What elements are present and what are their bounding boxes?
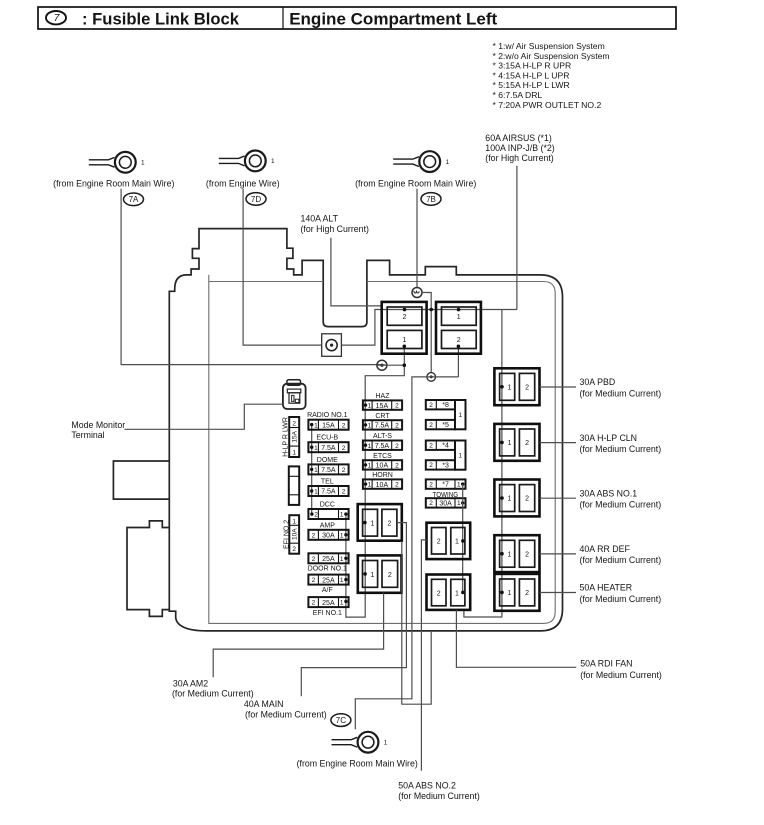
svg-text:2: 2 <box>395 482 399 489</box>
wire block B pin2 to 30A AM2 label <box>213 593 383 678</box>
svg-text:* 1:w/ Air Suspension System: * 1:w/ Air Suspension System <box>493 41 605 51</box>
svg-text:1: 1 <box>371 521 375 528</box>
svg-text:30A: 30A <box>322 533 335 540</box>
svg-text:CRT: CRT <box>375 413 390 420</box>
mode monitor terminal connector <box>283 380 306 409</box>
label 60A AIRSUS <box>485 133 554 163</box>
svg-text:2: 2 <box>437 539 441 546</box>
svg-text:7.5A: 7.5A <box>321 445 336 452</box>
label 40A MAIN <box>244 699 327 720</box>
oval 7C <box>331 714 351 727</box>
svg-text:(from Engine Wire): (from Engine Wire) <box>206 179 280 189</box>
svg-text:(for Medium Current): (for Medium Current) <box>580 670 662 680</box>
svg-text:*4: *4 <box>442 443 449 450</box>
big block C (50A ABS NO.2) <box>427 523 471 559</box>
big block A (40A MAIN) <box>358 504 402 541</box>
bolt terminal C1 (top) <box>412 288 422 298</box>
svg-text:7D: 7D <box>251 195 261 204</box>
svg-text:1: 1 <box>314 445 318 452</box>
svg-text:1: 1 <box>457 500 461 507</box>
housing inner wall line <box>209 275 555 624</box>
svg-text:2: 2 <box>429 500 433 507</box>
svg-text:EFI NO.1: EFI NO.1 <box>313 610 342 617</box>
fuse ECU-B 7.5A <box>308 435 348 453</box>
right block 4 (40A RR DEF) <box>494 535 539 572</box>
svg-text:2: 2 <box>525 496 529 503</box>
svg-text:2: 2 <box>525 385 529 392</box>
svg-text:(from Engine Room Main Wire): (from Engine Room Main Wire) <box>53 179 174 189</box>
svg-text:1: 1 <box>314 489 318 496</box>
left fuse column right bus (DCC to A/F) <box>345 514 347 601</box>
svg-text:Engine Compartment Left: Engine Compartment Left <box>289 9 497 28</box>
svg-text:1: 1 <box>292 450 296 457</box>
svg-text:1: 1 <box>340 532 344 539</box>
svg-text:30A: 30A <box>439 500 452 507</box>
svg-text:(for Medium Current): (for Medium Current) <box>580 500 662 510</box>
svg-text:TEL: TEL <box>321 479 334 486</box>
svg-text:(from Engine Room Main Wire): (from Engine Room Main Wire) <box>355 179 476 189</box>
wire C1 right then down to C2 <box>421 293 431 373</box>
housing outer outline <box>169 229 562 631</box>
svg-text:2: 2 <box>387 521 391 528</box>
housing inner top edge left of notch <box>209 281 323 283</box>
svg-text:1: 1 <box>508 440 512 447</box>
right block 1 (30A PBD) <box>494 368 539 405</box>
fuse DOME 7.5A <box>308 457 348 475</box>
right block 5 (50A HEATER) <box>494 574 539 611</box>
wire block A edge down u-turn to housing edge <box>402 541 431 705</box>
label Mode Monitor Terminal <box>71 420 125 440</box>
svg-text:ECU-B: ECU-B <box>316 435 338 442</box>
top fuse block L (140A ALT) <box>382 302 427 354</box>
label 50A ABS NO.2 <box>398 781 480 802</box>
svg-text:1: 1 <box>340 577 344 584</box>
wire 7D down to bolt square <box>243 189 322 345</box>
svg-text:50A ABS NO.2: 50A ABS NO.2 <box>398 781 456 791</box>
svg-text:HORN: HORN <box>372 472 393 479</box>
svg-text:1: 1 <box>368 463 372 470</box>
svg-text:7.5A: 7.5A <box>321 467 336 474</box>
svg-text:1: 1 <box>458 412 462 419</box>
svg-text:7.5A: 7.5A <box>375 443 390 450</box>
svg-text:* 3:15A H-LP R UPR: * 3:15A H-LP R UPR <box>493 61 572 71</box>
svg-text:1: 1 <box>508 590 512 597</box>
svg-text:1: 1 <box>371 572 375 579</box>
svg-text:(for High Current): (for High Current) <box>301 224 370 234</box>
svg-text:1: 1 <box>508 385 512 392</box>
svg-text:100A INP-J/B (*2): 100A INP-J/B (*2) <box>485 143 554 153</box>
svg-text:30A PBD: 30A PBD <box>580 377 616 387</box>
svg-text:60A AIRSUS (*1): 60A AIRSUS (*1) <box>485 133 552 143</box>
svg-text:*3: *3 <box>442 462 449 469</box>
svg-text:(for Medium Current): (for Medium Current) <box>580 594 662 604</box>
notes list <box>493 41 610 110</box>
svg-text:: Fusible Link Block: : Fusible Link Block <box>82 9 240 28</box>
svg-text:* 7:20A PWR OUTLET NO.2: * 7:20A PWR OUTLET NO.2 <box>493 100 602 110</box>
wire block D bottom to 50A RDI FAN label <box>456 610 576 667</box>
svg-text:2: 2 <box>429 481 433 488</box>
svg-text:1: 1 <box>384 739 388 746</box>
label 50A RDI FAN <box>580 658 662 679</box>
label 30A ABS NO.1 <box>580 488 662 509</box>
svg-text:1: 1 <box>368 482 372 489</box>
svg-text:2: 2 <box>312 532 316 539</box>
fusible link oval symbol <box>46 11 66 24</box>
wire 140A ALT pointer <box>331 238 382 306</box>
svg-text:15A: 15A <box>376 403 389 410</box>
svg-text:*7: *7 <box>442 482 449 489</box>
svg-text:7.5A: 7.5A <box>321 489 336 496</box>
wire junction up to block L pin1 <box>403 346 405 365</box>
svg-text:2: 2 <box>429 422 433 429</box>
svg-text:2: 2 <box>395 403 399 410</box>
svg-text:*8: *8 <box>442 402 449 409</box>
fuse TOWING 30A <box>426 492 466 508</box>
label 50A HEATER <box>580 583 662 604</box>
label 40A RR DEF <box>580 544 662 565</box>
svg-text:7A: 7A <box>129 195 139 204</box>
wire block C pin2 to 50A ABS NO.2 <box>421 540 426 771</box>
svg-text:15A: 15A <box>322 422 335 429</box>
fuse EFI NO.2 (vertical) <box>283 515 299 554</box>
svg-text:2: 2 <box>395 423 399 430</box>
svg-text:DOOR NO.1: DOOR NO.1 <box>308 566 347 573</box>
svg-text:1: 1 <box>508 551 512 558</box>
svg-text:1: 1 <box>457 481 461 488</box>
svg-text:25A: 25A <box>322 577 335 584</box>
svg-text:10A: 10A <box>376 463 389 470</box>
svg-text:Mode Monitor: Mode Monitor <box>71 420 125 430</box>
svg-text:2: 2 <box>525 590 529 597</box>
svg-text:1: 1 <box>458 453 462 460</box>
svg-text:1: 1 <box>314 467 318 474</box>
svg-text:2: 2 <box>429 462 433 469</box>
fuse group *8 / *5 shared terminal 1 <box>426 400 466 429</box>
main bus from bolt square to AIRSUS junction <box>341 310 517 346</box>
label 30A PBD <box>580 377 662 398</box>
svg-text:(for Medium Current): (for Medium Current) <box>245 710 327 720</box>
svg-text:1: 1 <box>455 590 459 597</box>
pointer 30A ABS NO.1 <box>540 497 577 499</box>
oval 7D <box>246 193 266 206</box>
wire block A pin2 to 40A MAIN label <box>301 523 406 697</box>
left fuse column bus (pin1 side) <box>311 425 313 514</box>
big block D (50A RDI FAN) <box>427 575 471 610</box>
svg-text:(for Medium Current): (for Medium Current) <box>580 555 662 565</box>
svg-text:10A: 10A <box>292 528 299 540</box>
star column bus (pin1 side) <box>462 484 464 592</box>
fuse ETCS 10A <box>363 453 402 470</box>
svg-text:2: 2 <box>429 402 433 409</box>
svg-text:2: 2 <box>457 337 461 344</box>
svg-text:7C: 7C <box>336 716 346 725</box>
svg-text:1: 1 <box>340 556 344 563</box>
svg-text:1: 1 <box>508 496 512 503</box>
svg-text:1: 1 <box>292 518 296 525</box>
svg-text:* 2:w/o Air Suspension System: * 2:w/o Air Suspension System <box>493 51 610 61</box>
svg-text:2: 2 <box>525 440 529 447</box>
bolt circle E (left) <box>377 360 387 370</box>
svg-text:1: 1 <box>141 160 145 167</box>
header table <box>38 7 676 29</box>
pointer 30A H-LP CLN <box>540 442 577 444</box>
fuse DCC <box>308 502 348 520</box>
svg-text:EFI NO.2: EFI NO.2 <box>283 520 290 549</box>
label 30A AM2 <box>172 679 254 699</box>
junction dots on main bus <box>429 308 433 312</box>
svg-text:(from Engine Room Main Wire): (from Engine Room Main Wire) <box>297 758 418 768</box>
svg-text:* 4:15A H-LP L UPR: * 4:15A H-LP L UPR <box>493 70 570 80</box>
right block 3 (30A ABS NO.1) <box>494 480 539 517</box>
fuse group *4 / *3 shared terminal 1 <box>426 441 466 470</box>
svg-text:2: 2 <box>403 314 407 321</box>
wire C2 right up to block R pin2 <box>457 346 459 377</box>
svg-text:1: 1 <box>368 423 372 430</box>
right block 2 (30A H-LP CLN) <box>494 424 539 461</box>
svg-text:140A ALT: 140A ALT <box>301 214 339 224</box>
wire from bolt E to junction and HAZ bus <box>346 365 404 617</box>
svg-text:1: 1 <box>314 422 318 429</box>
bolt terminal C2 (mid) <box>427 373 436 382</box>
svg-text:(for Medium Current): (for Medium Current) <box>580 444 662 454</box>
svg-text:2: 2 <box>342 445 346 452</box>
svg-text:HAZ: HAZ <box>376 393 391 400</box>
svg-text:2: 2 <box>342 489 346 496</box>
fuse RADIO NO.1 15A <box>307 412 349 430</box>
svg-text:2: 2 <box>525 551 529 558</box>
svg-text:2: 2 <box>388 572 392 579</box>
fuse 25A (EFI NO.1) <box>308 597 348 617</box>
svg-text:1: 1 <box>457 314 461 321</box>
svg-text:30A AM2: 30A AM2 <box>173 679 208 689</box>
svg-text:2: 2 <box>314 512 318 519</box>
svg-text:1: 1 <box>271 158 275 165</box>
svg-text:1: 1 <box>455 539 459 546</box>
svg-text:40A RR DEF: 40A RR DEF <box>580 544 631 554</box>
svg-text:10A: 10A <box>376 482 389 489</box>
wire 60A AIRSUS down <box>516 166 518 310</box>
fuse CRT 7.5A <box>363 413 402 430</box>
top fuse block R <box>436 302 481 354</box>
svg-text:15A: 15A <box>292 430 299 442</box>
label 140A ALT <box>301 214 370 235</box>
svg-text:ETCS: ETCS <box>373 453 392 460</box>
svg-text:A/F: A/F <box>322 587 333 594</box>
svg-text:1: 1 <box>368 403 372 410</box>
branch bus down to right fuse column <box>464 310 502 618</box>
fuse HORN 10A <box>363 472 402 489</box>
blank vertical box <box>289 466 299 505</box>
svg-text:2: 2 <box>312 556 316 563</box>
svg-text:RADIO NO.1: RADIO NO.1 <box>307 412 348 419</box>
svg-text:2: 2 <box>395 443 399 450</box>
svg-text:H-LP R LWR: H-LP R LWR <box>282 417 289 457</box>
ring terminal 7A <box>89 152 145 173</box>
svg-text:25A: 25A <box>322 600 335 607</box>
svg-text:(for Medium Current): (for Medium Current) <box>172 689 254 699</box>
svg-text:25A: 25A <box>322 556 335 563</box>
svg-text:2: 2 <box>437 590 441 597</box>
svg-text:2: 2 <box>312 600 316 607</box>
svg-text:7B: 7B <box>426 195 436 204</box>
svg-text:2: 2 <box>429 443 433 450</box>
fuse ALT-S 7.5A <box>363 433 402 450</box>
svg-text:1: 1 <box>403 337 407 344</box>
svg-text:* 5:15A H-LP L LWR: * 5:15A H-LP L LWR <box>493 80 570 90</box>
fuse TEL 7.5A <box>308 479 348 497</box>
svg-text:2: 2 <box>342 467 346 474</box>
fuse AMP 30A <box>308 522 348 540</box>
wire 7B down to bolt C1 <box>416 189 418 289</box>
svg-text:50A HEATER: 50A HEATER <box>580 583 633 593</box>
svg-text:2: 2 <box>292 421 296 428</box>
oval 7B <box>421 193 441 206</box>
fuse 25A (DOOR NO.1) <box>308 553 349 572</box>
svg-text:(for High Current): (for High Current) <box>485 153 554 163</box>
svg-text:*5: *5 <box>442 422 449 429</box>
big block B (30A AM2) <box>358 555 402 592</box>
svg-text:1: 1 <box>340 512 344 519</box>
svg-text:1: 1 <box>446 159 450 166</box>
svg-text:2: 2 <box>342 422 346 429</box>
svg-text:1: 1 <box>340 600 344 607</box>
svg-text:ALT-S: ALT-S <box>373 433 392 440</box>
wire C2 left to 7C line down to terminal 7C <box>355 377 458 729</box>
fuse H-LP R LWR (vertical) <box>282 417 299 457</box>
pointer 50A HEATER <box>540 592 577 594</box>
svg-text:* 6:7.5A DRL: * 6:7.5A DRL <box>493 90 543 100</box>
wire 7A down and right to bolt E <box>121 189 386 366</box>
svg-text:7.5A: 7.5A <box>375 423 390 430</box>
ring terminal 7C <box>332 732 388 753</box>
junction dot at 404,365 <box>403 363 407 367</box>
pointer 40A RR DEF <box>540 553 577 555</box>
housing left lower tab <box>127 521 169 617</box>
fuse 25A (A/F) <box>308 575 348 594</box>
housing left upper tab <box>113 461 169 499</box>
svg-text:2: 2 <box>395 463 399 470</box>
svg-text:AMP: AMP <box>320 522 336 529</box>
oval 7A <box>124 193 144 206</box>
svg-text:50A RDI FAN: 50A RDI FAN <box>580 658 632 668</box>
svg-text:(for Medium Current): (for Medium Current) <box>398 791 480 801</box>
svg-text:Terminal: Terminal <box>71 430 104 440</box>
svg-text:(for Medium Current): (for Medium Current) <box>580 388 662 398</box>
label 30A H-LP CLN <box>580 433 662 454</box>
ring terminal 7D <box>219 151 275 172</box>
svg-text:2: 2 <box>312 577 316 584</box>
svg-text:30A ABS NO.1: 30A ABS NO.1 <box>580 488 638 498</box>
svg-text:DOME: DOME <box>317 457 338 464</box>
pointer wire mode monitor <box>125 404 283 429</box>
ring terminal 7B <box>393 151 449 172</box>
svg-text:2: 2 <box>292 546 296 553</box>
bolt square terminal <box>322 334 342 357</box>
fuse HAZ 15A <box>363 393 402 410</box>
svg-text:DCC: DCC <box>320 502 335 509</box>
pointer 30A PBD <box>540 386 577 388</box>
svg-text:40A MAIN: 40A MAIN <box>244 699 284 709</box>
svg-text:30A H-LP CLN: 30A H-LP CLN <box>580 433 638 443</box>
svg-text:1: 1 <box>368 443 372 450</box>
fuse *7 <box>426 479 466 488</box>
